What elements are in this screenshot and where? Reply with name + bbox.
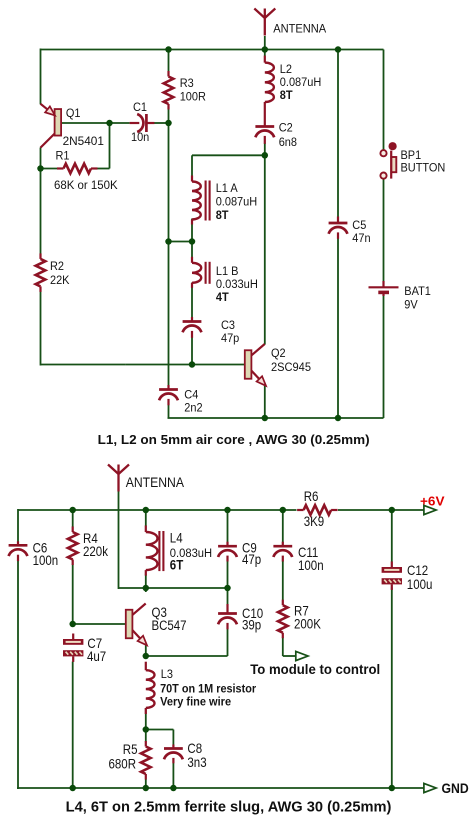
svg-text:L4, 6T on 2.5mm ferrite slug,: L4, 6T on 2.5mm ferrite slug, AWG 30 (0.… <box>66 800 392 816</box>
svg-text:2SC945: 2SC945 <box>271 360 311 374</box>
wire Q3 emitter to node <box>145 645 147 657</box>
value R2 <box>50 273 70 287</box>
svg-text:C8: C8 <box>187 741 202 756</box>
wire node to C5 <box>337 50 339 218</box>
port GND <box>424 783 436 792</box>
svg-text:0.087uH: 0.087uH <box>280 75 322 89</box>
wire L1A to node <box>191 219 193 243</box>
value R6 <box>304 514 325 529</box>
value BP1 <box>401 161 446 175</box>
value C4 <box>184 401 202 415</box>
wire up to C10 <box>227 629 229 657</box>
junction <box>165 120 172 127</box>
wire node to C8 <box>146 729 174 731</box>
label L1B <box>216 264 239 278</box>
antenna <box>108 465 129 492</box>
capacitor C11 (100n) <box>273 542 292 562</box>
label C4 <box>184 388 198 402</box>
wire to module port <box>283 655 296 657</box>
wire riser R1 to base node <box>109 122 111 169</box>
junction <box>335 415 342 422</box>
label ANTENNA 2 <box>126 474 185 490</box>
svg-text:L4: L4 <box>170 531 183 546</box>
wire L4 top lead <box>145 510 147 526</box>
junction <box>143 653 150 660</box>
svg-text:C5: C5 <box>352 218 366 232</box>
label R6 <box>304 489 319 504</box>
inductor L3 (70T) <box>146 662 155 714</box>
svg-text:47n: 47n <box>352 231 370 245</box>
svg-text:39p: 39p <box>242 618 261 633</box>
label BP1 <box>401 148 422 162</box>
label C7 <box>87 636 102 651</box>
wire C4 to bottom rail <box>168 405 170 419</box>
svg-text:22K: 22K <box>50 273 70 287</box>
label C6 <box>33 541 48 556</box>
svg-text:ANTENNA: ANTENNA <box>126 474 185 490</box>
svg-text:4u7: 4u7 <box>87 649 106 664</box>
value L1A turns <box>216 208 230 222</box>
label C3 <box>221 318 235 332</box>
svg-text:R3: R3 <box>180 76 194 90</box>
wire R3 top lead <box>168 50 170 72</box>
value L1B turns <box>216 290 230 304</box>
capacitor C9 (47p) <box>218 542 237 562</box>
label Q2 <box>271 346 286 360</box>
svg-text:C12: C12 <box>407 563 428 578</box>
junction <box>143 585 150 592</box>
label C12 <box>407 563 428 578</box>
junction <box>170 785 177 792</box>
wire base node to Q3 base <box>73 623 126 625</box>
svg-text:R1: R1 <box>56 149 70 163</box>
label C11 <box>298 545 318 560</box>
wire antenna2 down <box>118 490 120 589</box>
svg-text:L3: L3 <box>161 667 173 681</box>
value L2 turns <box>280 88 294 102</box>
label L4 <box>170 531 183 546</box>
junction <box>280 507 287 514</box>
svg-text:9V: 9V <box>404 298 418 312</box>
svg-text:+6V: +6V <box>420 494 445 509</box>
label BAT1 <box>404 284 431 298</box>
wire R4 to base node <box>72 565 74 625</box>
wire R5 to GND rail <box>145 779 147 788</box>
wire Q2 emitter to bottom rail <box>264 385 266 418</box>
junction <box>189 238 196 245</box>
wire L1B to C3 <box>191 283 193 319</box>
svg-text:L1, L2 on 5mm air core , AWG 3: L1, L2 on 5mm air core , AWG 30 (0.25mm) <box>98 432 370 447</box>
svg-text:BC547: BC547 <box>152 618 187 633</box>
svg-text:To module to control: To module to control <box>250 662 380 677</box>
wire top rail (V+) <box>41 49 384 51</box>
capacitor C7 (4u7) electrolytic <box>63 634 83 662</box>
svg-text:47p: 47p <box>221 331 240 345</box>
value C12 <box>407 577 433 592</box>
capacitor C4 (2n2) <box>159 385 178 405</box>
resistor R2 (22K) <box>36 253 46 292</box>
wire node to L1B <box>191 242 193 259</box>
value C6 <box>33 553 59 568</box>
wire R4 top lead <box>72 510 74 527</box>
inductor L4 (0.083uH 6T) <box>146 526 164 576</box>
svg-text:200K: 200K <box>294 617 322 632</box>
wire node down to Q2 collector <box>264 155 266 344</box>
svg-text:L1 B: L1 B <box>216 264 239 278</box>
svg-text:68K or 150K: 68K or 150K <box>54 178 118 192</box>
resistor R7 (200K) <box>278 600 288 639</box>
label R3 <box>180 76 194 90</box>
wire C6 to bottom rail <box>17 556 19 790</box>
label R7 <box>294 604 309 619</box>
wire BAT1 to bottom rail <box>383 295 385 418</box>
wire jumper to L1 column <box>169 241 193 243</box>
svg-text:70T on 1M resistor: 70T on 1M resistor <box>160 682 256 695</box>
wire R2 to bottom corner <box>40 292 42 366</box>
value C5 <box>352 231 370 245</box>
inductor L1A (0.087uH 8T) <box>192 176 210 225</box>
port +6V <box>424 505 436 514</box>
value C11 <box>298 558 324 573</box>
svg-text:C2: C2 <box>279 121 293 135</box>
junction <box>389 507 396 514</box>
capacitor C8 (3n3) <box>164 745 183 764</box>
wire C3 to base row <box>191 337 193 366</box>
wire emitter row to C10 <box>146 655 228 657</box>
wire Q3 collector stub <box>145 588 147 592</box>
wire row L4/C9 <box>119 587 228 589</box>
value BAT1 <box>404 298 418 312</box>
wire C12 to GND rail <box>391 588 393 789</box>
value C9 <box>242 552 261 567</box>
port to module <box>296 651 308 660</box>
value R3 <box>180 90 206 104</box>
resistor R1 (68K or 150K) <box>57 164 98 174</box>
label C5 <box>352 218 366 232</box>
transistor Q3 (NPN BC547) <box>126 604 147 646</box>
label Q3 <box>152 605 167 620</box>
transistor Q1 (PNP 2N5401) <box>41 104 62 148</box>
svg-text:3K9: 3K9 <box>304 514 325 529</box>
svg-text:10n: 10n <box>131 130 149 144</box>
svg-text:C1: C1 <box>133 100 147 114</box>
value C10 <box>242 618 261 633</box>
svg-text:6n8: 6n8 <box>279 135 297 149</box>
wire to Q2 base <box>125 364 245 366</box>
svg-text:C3: C3 <box>221 318 235 332</box>
value C2 <box>279 135 297 149</box>
wire C11 top lead <box>282 510 284 543</box>
junction <box>143 507 150 514</box>
svg-text:L1 A: L1 A <box>216 181 238 195</box>
label R2 <box>50 259 64 273</box>
value R5 <box>109 757 137 772</box>
wire top rail left of R6 <box>18 509 297 511</box>
svg-text:100u: 100u <box>407 577 433 592</box>
wire L4 bottom lead <box>145 575 147 589</box>
wire C7 to GND rail <box>72 662 74 789</box>
svg-text:3n3: 3n3 <box>187 755 206 770</box>
label C8 <box>187 741 202 756</box>
wire Q1 collector down to R2 <box>40 148 42 254</box>
label C10 <box>242 606 263 621</box>
junction <box>69 621 76 628</box>
resistor R5 (680R) <box>141 741 151 780</box>
svg-text:100n: 100n <box>298 558 324 573</box>
capacitor C1 (10n) <box>130 114 155 132</box>
resistor R4 (220k) <box>68 527 78 566</box>
wire antenna to node <box>264 36 266 56</box>
inductor L2 (0.087uH 8T) <box>265 56 274 123</box>
wire C8 top lead <box>172 730 174 745</box>
value L4 turns <box>170 558 184 573</box>
value C8 <box>187 755 206 770</box>
pushbutton BP1 <box>380 142 396 179</box>
inductor L1B (0.033uH 4T) <box>192 257 210 288</box>
capacitor C6 (100n) <box>9 541 28 561</box>
svg-text:2N5401: 2N5401 <box>63 134 104 148</box>
antenna <box>254 9 275 36</box>
wire rail down to BP1 <box>383 50 385 151</box>
junction <box>165 46 172 53</box>
wire C11 to R7 <box>282 561 284 600</box>
label C9 <box>242 541 257 556</box>
wire column down to C4 <box>168 242 170 387</box>
value C1 <box>131 130 149 144</box>
label R1 <box>56 149 70 163</box>
battery BAT1 (9V) <box>369 281 399 296</box>
wire base row left <box>41 364 126 366</box>
svg-text:100R: 100R <box>180 90 206 104</box>
value R7 <box>294 617 322 632</box>
capacitor C2 (6n8) <box>255 123 274 144</box>
wire R3 bottom lead <box>168 109 170 123</box>
svg-text:Very fine wire: Very fine wire <box>160 695 232 708</box>
svg-text:8T: 8T <box>280 88 294 102</box>
transistor Q2 (NPN 2SC945) <box>245 344 266 386</box>
capacitor C5 (47n) <box>329 217 348 239</box>
capacitor C10 (39p) <box>218 604 237 629</box>
svg-text:BUTTON: BUTTON <box>401 161 446 175</box>
junction <box>224 585 231 592</box>
wire BP1 to BAT1 <box>383 179 385 283</box>
wire left edge to C6 <box>17 509 19 542</box>
wire C5 to bottom rail <box>337 239 339 419</box>
junction <box>143 785 150 792</box>
svg-text:R6: R6 <box>304 489 319 504</box>
wire down to L1A <box>191 155 193 177</box>
junction <box>224 507 231 514</box>
junction <box>37 165 44 172</box>
svg-text:4T: 4T <box>216 290 230 304</box>
junction <box>335 46 342 53</box>
junction <box>262 152 269 159</box>
label C1 <box>133 100 147 114</box>
junction <box>69 785 76 792</box>
svg-text:0.087uH: 0.087uH <box>216 195 258 209</box>
junction <box>165 238 172 245</box>
wire bottom rail (battery minus) <box>168 417 384 419</box>
wire C9 top lead <box>227 510 229 543</box>
label C2 <box>279 121 293 135</box>
junction <box>106 120 113 127</box>
svg-text:R2: R2 <box>50 259 64 273</box>
wire Q1 base to C1 <box>61 122 130 124</box>
label L2 <box>280 62 292 76</box>
svg-text:C4: C4 <box>184 388 198 402</box>
wire top rail to +6V <box>338 509 424 511</box>
svg-text:GND: GND <box>442 780 469 796</box>
svg-text:2n2: 2n2 <box>184 401 202 415</box>
svg-text:6T: 6T <box>170 558 184 573</box>
value C3 <box>221 331 240 345</box>
wire R1 left lead row <box>41 168 58 170</box>
svg-text:Q1: Q1 <box>66 106 81 120</box>
wire R1 right to riser <box>98 168 110 170</box>
value C7 <box>87 649 106 664</box>
wire C8 to GND rail <box>172 763 174 788</box>
wire R7 down <box>282 638 284 657</box>
junction <box>262 415 269 422</box>
label L3 <box>161 667 173 681</box>
wire C1 to node R3 <box>154 122 169 124</box>
svg-text:Q2: Q2 <box>271 346 286 360</box>
wire C9 bottom to row <box>227 561 229 588</box>
svg-text:47p: 47p <box>242 552 261 567</box>
label R4 <box>83 531 98 546</box>
wire node to L1A top <box>192 154 265 156</box>
value R4 <box>83 544 109 559</box>
capacitor C3 (47p) <box>183 317 202 338</box>
junction <box>143 726 150 733</box>
wire node to R5 <box>145 730 147 742</box>
wire L3 to node <box>145 708 147 731</box>
junction <box>69 507 76 514</box>
capacitor C12 (100u) electrolytic <box>382 562 402 590</box>
junction <box>189 361 196 368</box>
wire bottom rail (GND) <box>17 787 424 789</box>
resistor R3 (100R) <box>164 71 174 110</box>
label L1A <box>216 181 238 195</box>
svg-text:BAT1: BAT1 <box>404 284 431 298</box>
svg-text:R5: R5 <box>123 742 138 757</box>
svg-text:680R: 680R <box>109 757 137 772</box>
resistor R6 (3K9) <box>297 505 338 515</box>
wire +6V node down to C12 <box>391 510 393 562</box>
wire node column down <box>168 123 170 242</box>
svg-text:ANTENNA: ANTENNA <box>273 22 327 36</box>
junction <box>389 785 396 792</box>
junction <box>262 46 269 53</box>
svg-text:0.033uH: 0.033uH <box>216 277 258 291</box>
wire C2 to node <box>264 143 266 155</box>
svg-text:100n: 100n <box>33 553 59 568</box>
wire row down to C10 <box>227 588 229 605</box>
label R5 <box>123 742 138 757</box>
wire left rail to Q1 emitter <box>40 49 42 105</box>
label Q1 <box>66 106 81 120</box>
svg-text:8T: 8T <box>216 208 230 222</box>
svg-text:220k: 220k <box>83 544 109 559</box>
